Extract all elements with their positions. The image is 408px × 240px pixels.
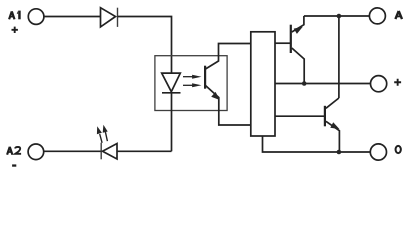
LED light arrowhead 2 (103, 125, 108, 133)
transistor Q2 emitter (326, 121, 340, 152)
driver block U2 (251, 32, 275, 136)
LED light arrow 2 (105, 132, 107, 141)
label 0 terminal (396, 146, 401, 153)
wire block to PNP base (275, 42, 291, 44)
terminal A2 (28, 144, 44, 160)
label A2 letter A (7, 147, 12, 155)
transistor Q2 base bar (324, 106, 326, 127)
wire diode to corner (118, 17, 172, 74)
top rail to A (304, 15, 370, 17)
phototransistor emitter arrowhead (211, 92, 220, 100)
terminal 0 (370, 144, 386, 160)
phototransistor collector (206, 44, 251, 70)
terminal + (371, 76, 387, 92)
diode D1 cathode bar (117, 8, 119, 27)
opto light arrowhead 2 (192, 83, 201, 87)
label A2 minus sign (12, 164, 16, 166)
LED D2 triangle (103, 144, 118, 160)
optocoupler box U1 (155, 56, 227, 111)
transistor Q2 collector (326, 98, 339, 108)
wire A2 to LED (44, 150, 101, 152)
diode D1 (101, 8, 116, 27)
junction dot top rail (337, 14, 342, 19)
mid rail to + (275, 83, 371, 85)
label A1 letter A (9, 11, 14, 19)
Q1 emitter arrowhead (294, 27, 303, 34)
opto LED cathode bar (162, 92, 181, 94)
label A plus sign (12, 27, 18, 33)
junction dot mid rail (302, 81, 307, 86)
opto light arrow 2 (183, 84, 194, 86)
wire A1 to diode (44, 16, 101, 18)
opto light arrow 1 (183, 76, 194, 78)
phototransistor base bar (204, 66, 206, 89)
wire block bottom to 0 rail (263, 136, 371, 152)
transistor Q1 base bar (290, 25, 292, 53)
opto LED triangle (162, 73, 181, 92)
transistor Q1 emitter up (292, 16, 304, 32)
junction dot bottom rail (337, 150, 342, 155)
label A1 digit 1 fill (18, 11, 21, 20)
label A2 digit 2 (15, 147, 21, 154)
LED light arrowhead 1 (97, 126, 102, 134)
transistor Q1 collector down (292, 48, 304, 84)
wire block to NPN base (275, 115, 325, 117)
phototransistor emitter (206, 86, 251, 126)
wire LED to corner (117, 150, 172, 152)
LED D2 cathode bar (100, 143, 102, 160)
label A terminal letter A (395, 11, 402, 19)
Q2 emitter arrowhead (330, 122, 339, 129)
wire top dot down to NPN collector (338, 16, 340, 98)
opto light arrowhead 1 (192, 75, 201, 79)
label plus terminal (394, 79, 401, 86)
LED light arrow 1 (100, 134, 102, 143)
terminal A (369, 8, 385, 24)
terminal A1 (28, 9, 44, 25)
wire LED cathode down to A2 rail (171, 93, 173, 152)
